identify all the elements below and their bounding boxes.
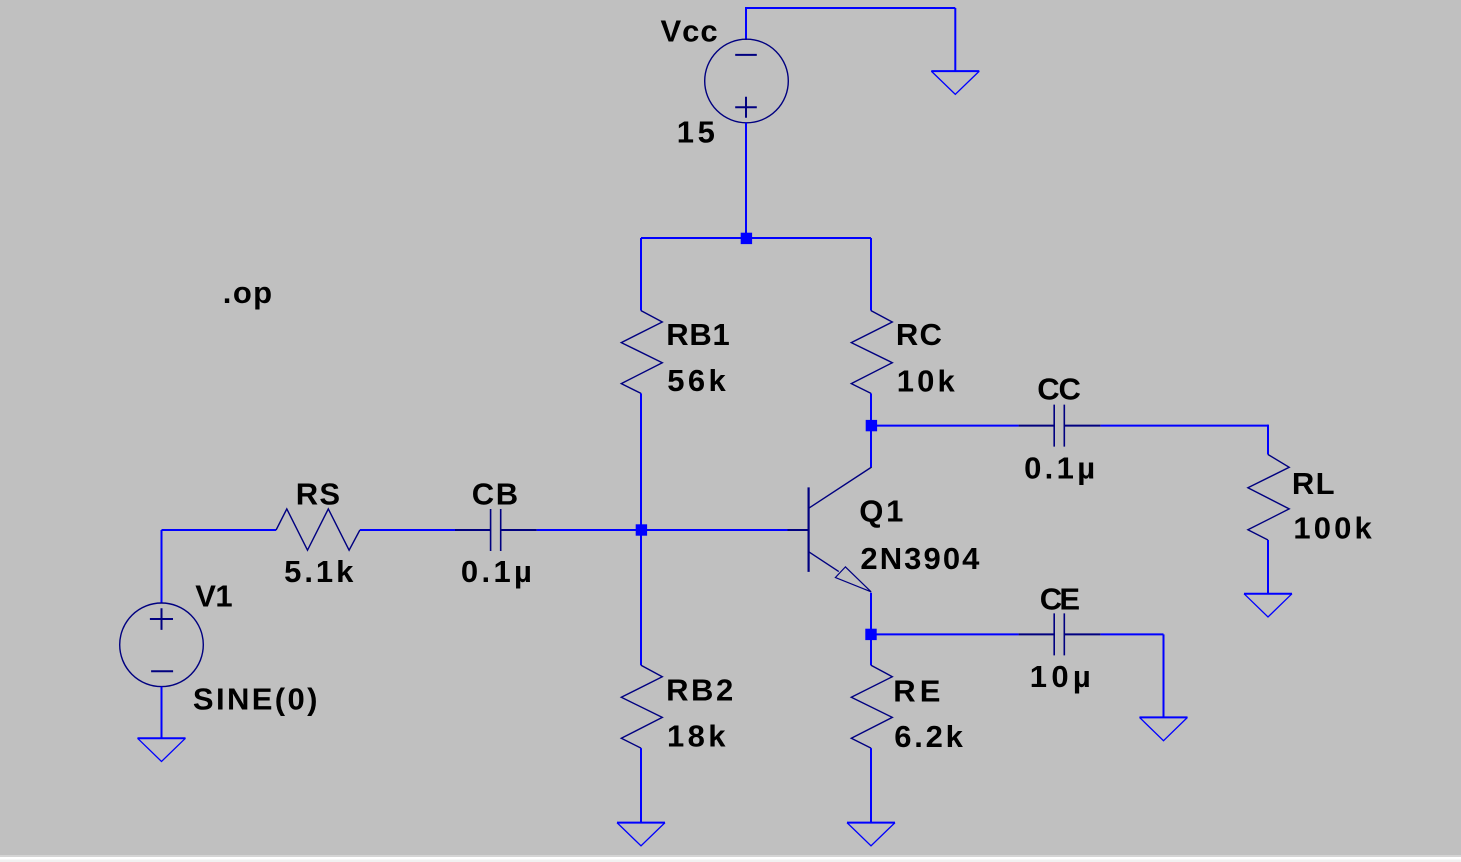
svg-text:18k: 18k	[667, 719, 726, 754]
resistor RC	[851, 311, 892, 394]
svg-text:RB1: RB1	[666, 317, 730, 352]
wire V1 to RS	[162, 529, 277, 531]
wire collector lead	[870, 426, 872, 467]
resistor RE	[851, 665, 892, 748]
wire Vcc rail top horizontal	[745, 7, 955, 9]
resistor RB2	[621, 665, 662, 748]
svg-text:CE: CE	[1040, 581, 1080, 616]
wire emitter node to CE	[871, 633, 1019, 635]
svg-text:RC: RC	[896, 317, 942, 352]
svg-text:RS: RS	[296, 476, 340, 511]
ground below RL	[1244, 593, 1292, 595]
svg-text:RL: RL	[1292, 466, 1335, 501]
ground below V1	[138, 737, 186, 739]
voltage source Vcc	[705, 39, 789, 123]
wire CC to RL corner	[1100, 425, 1268, 427]
node junction at collector	[866, 420, 877, 431]
resistor RL	[1248, 455, 1289, 541]
wire RS to CB	[360, 529, 455, 531]
wire RB2 bottom lead	[640, 748, 642, 823]
ground at Vcc rail	[931, 70, 979, 72]
svg-text:56k: 56k	[667, 363, 726, 398]
svg-text:.op: .op	[223, 275, 272, 310]
svg-text:0.1µ: 0.1µ	[1024, 450, 1095, 485]
ground below CE	[1140, 716, 1188, 718]
wire V1 bottom lead	[161, 687, 163, 739]
svg-text:CC: CC	[1037, 371, 1081, 406]
wire top rail horizontal	[641, 237, 871, 239]
wire ground drop right of Vcc	[954, 8, 956, 71]
wire CE to ground corner	[1100, 633, 1163, 635]
svg-text:10k: 10k	[897, 364, 956, 399]
wire RL bottom lead	[1267, 540, 1269, 594]
wire CB to base node	[537, 529, 788, 531]
wire RC bottom to collector node	[870, 393, 872, 425]
svg-text:Vcc: Vcc	[661, 13, 718, 48]
svg-text:10µ: 10µ	[1030, 659, 1091, 694]
wire Vcc source bottom to rail node	[745, 123, 747, 238]
wire CE ground drop	[1163, 634, 1165, 717]
wire RE bottom lead	[870, 748, 872, 823]
wire RL top lead	[1267, 425, 1269, 455]
wire RC top lead	[870, 238, 872, 311]
ground below RB2	[617, 822, 665, 824]
svg-text:SINE(0): SINE(0)	[193, 682, 318, 717]
wire Vcc source top lead	[745, 8, 747, 40]
svg-text:RB2: RB2	[666, 673, 733, 708]
resistor RS	[276, 509, 360, 550]
capacitor CE	[1019, 633, 1101, 635]
svg-text:CB: CB	[472, 476, 519, 511]
wire emitter lead	[870, 593, 872, 635]
wire collector node to CC	[871, 425, 1019, 427]
svg-text:0.1µ: 0.1µ	[461, 554, 532, 589]
window bottom edge strip	[0, 855, 1461, 857]
svg-text:5.1k: 5.1k	[284, 554, 354, 589]
transistor Q1 2N3904	[788, 467, 872, 592]
ground below RE	[847, 822, 895, 824]
node junction at emitter	[865, 629, 876, 640]
wire RB1 top lead	[640, 238, 642, 311]
capacitor CB	[455, 529, 537, 531]
resistor RB1	[621, 311, 662, 394]
wire RB1 bottom to base node	[640, 393, 642, 530]
wire V1 top lead	[161, 530, 163, 603]
capacitor CC	[1019, 425, 1101, 427]
svg-text:V1: V1	[195, 578, 232, 613]
node junction at base	[636, 524, 647, 535]
svg-text:6.2k: 6.2k	[894, 719, 963, 754]
wire RB2 top lead	[640, 530, 642, 665]
svg-text:Q1: Q1	[859, 493, 903, 528]
node junction at top rail	[741, 233, 752, 244]
wire RE top lead	[870, 634, 872, 665]
voltage source V1	[120, 603, 204, 687]
